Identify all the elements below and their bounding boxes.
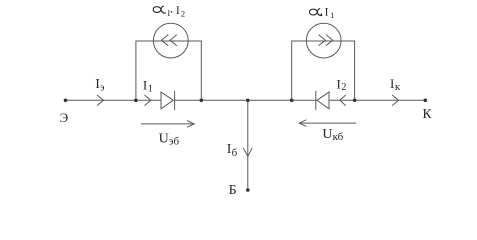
svg-text:U: U xyxy=(159,131,169,146)
svg-text:I: I xyxy=(176,5,180,17)
node: base junction center xyxy=(246,99,250,103)
svg-text:э: э xyxy=(100,83,104,94)
wire: main horizontal middle segment from VD1 cathode to VD2 cathode bar xyxy=(175,99,316,101)
node: junction right loop left xyxy=(290,99,294,103)
arrow: I_k current direction on collector wire xyxy=(393,95,399,105)
label: multiplication dot of left source label xyxy=(171,11,173,13)
arrow: U_eb voltage reference (pointing right) xyxy=(141,123,194,125)
arrow: I_e current direction on emitter wire xyxy=(97,95,103,105)
arrow: I_1 current direction before VD1 xyxy=(145,95,151,105)
label: alpha symbol of right source xyxy=(310,9,323,16)
wire: left current-source loop (up, across, down) xyxy=(136,41,201,100)
current source G2 arrow chevron 1 (pointing right) xyxy=(319,35,326,46)
current source G1 (alpha_I * I2) circle xyxy=(153,23,188,58)
svg-text:2: 2 xyxy=(181,9,185,19)
wire: base vertical wire to Б xyxy=(247,100,249,190)
svg-text:кб: кб xyxy=(333,131,344,143)
wire: right current-source loop (up, across, down) xyxy=(292,41,355,100)
wire: main horizontal collector-side segment from VD2 to К xyxy=(329,99,425,101)
diode VD2 cathode bar xyxy=(315,91,317,109)
svg-text:к: к xyxy=(395,81,401,93)
svg-text:2: 2 xyxy=(341,82,346,93)
svg-text:эб: эб xyxy=(169,136,180,148)
diode VD1 cathode bar xyxy=(174,91,176,109)
diode VD2 triangle (pointing left) xyxy=(317,92,329,109)
node: emitter terminal Э dot xyxy=(64,99,68,103)
current source G2 arrow chevron 2 (pointing right) xyxy=(326,35,333,46)
svg-text:I: I xyxy=(325,7,329,19)
svg-text:1: 1 xyxy=(330,10,334,20)
label: multiplication dot of right source label xyxy=(321,13,323,15)
svg-text:U: U xyxy=(322,127,332,142)
svg-text:I: I xyxy=(390,76,394,91)
diode VD1 triangle (anode left, pointing right) xyxy=(161,92,173,109)
current source G1 arrow chevron 1 (pointing left) xyxy=(162,35,169,46)
label: alpha_I symbol of left source xyxy=(153,6,166,13)
svg-text:К: К xyxy=(423,106,433,121)
node: junction right loop right xyxy=(353,99,357,103)
svg-text:I: I xyxy=(167,8,170,18)
arrow: I_2 current direction (pointing left) after VD2 xyxy=(340,95,346,105)
svg-text:Э: Э xyxy=(60,110,69,125)
svg-text:б: б xyxy=(232,147,238,159)
node: base terminal Б dot xyxy=(246,188,250,192)
arrow: U_kb voltage reference (pointing left) xyxy=(299,122,356,124)
svg-text:Б: Б xyxy=(229,182,237,197)
node: collector terminal К dot xyxy=(424,99,428,103)
node: junction left loop left xyxy=(134,99,138,103)
current source G1 arrow chevron 2 (pointing left) xyxy=(170,35,177,46)
svg-text:1: 1 xyxy=(148,84,153,95)
node: junction left loop right xyxy=(200,99,204,103)
svg-text:I: I xyxy=(143,77,147,92)
wire: main horizontal emitter-side segment Э to diode VD1 anode xyxy=(66,99,162,101)
svg-text:I: I xyxy=(337,76,341,91)
arrow: I_b current direction down base wire xyxy=(244,148,252,156)
current source G2 (alpha * I1) circle xyxy=(306,23,341,58)
